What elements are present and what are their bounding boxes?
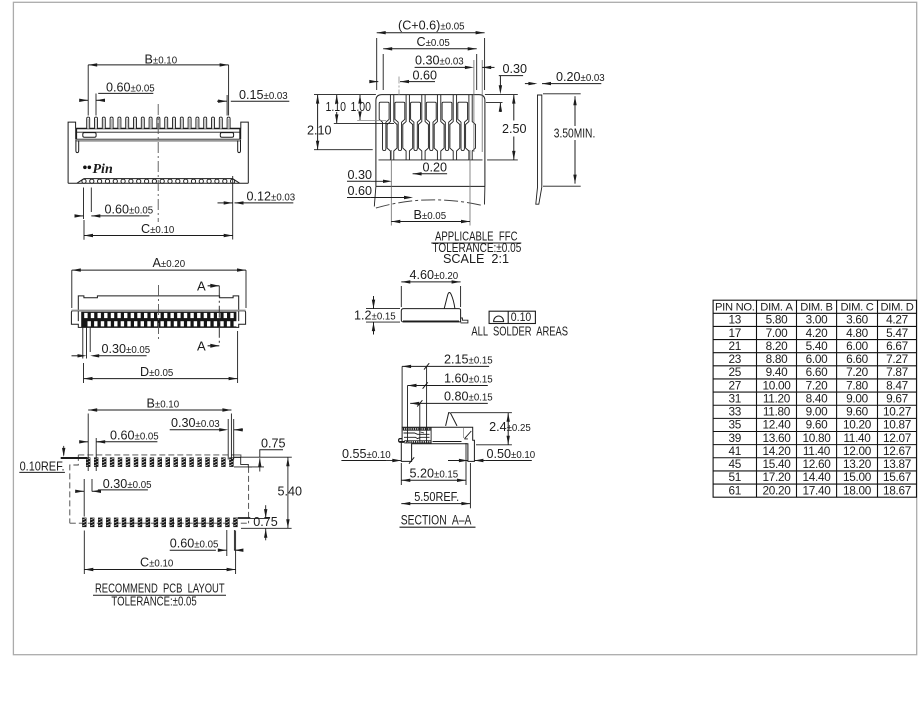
section A-A contact area hatch [403,428,431,431]
front view left latch window [83,133,96,138]
pcb layout dashed outline [78,454,237,456]
dimension C±0.05 (FFC) [382,54,384,90]
pcb top pad row x19 [86,457,90,467]
svg-text:2.15±0.15: 2.15±0.15 [444,353,493,367]
svg-text:3.60: 3.60 [846,313,868,327]
dimension 0.60±0.05 top (front view) [95,94,97,116]
bottom view flange outline [71,311,245,328]
dimension 5.40 (pcb) [241,527,292,529]
dimension 0.50±0.10 (section) [448,460,468,462]
dimension 0.75 bottom right (pcb) [265,505,267,518]
pcb bottom pad row x20 [82,518,86,528]
svg-text:7.87: 7.87 [886,365,908,379]
svg-text:33: 33 [729,405,742,419]
dimension 1.10 (FFC) [335,95,338,104]
svg-text:0.30±0.05: 0.30±0.05 [103,477,152,491]
svg-text:0.30±0.03: 0.30±0.03 [171,416,220,430]
section arrow A bottom [208,345,220,347]
svg-text:17.20: 17.20 [762,470,791,484]
svg-text:5.47: 5.47 [886,326,908,340]
svg-text:10.87: 10.87 [883,418,911,432]
dimension 0.60±0.05 bottom (front view) [83,188,85,220]
svg-text:0.30±0.05: 0.30±0.05 [102,342,151,356]
svg-text:18.00: 18.00 [843,483,872,497]
svg-text:0.60±0.05: 0.60±0.05 [106,81,155,95]
bottom view contact band (dark) [81,312,236,327]
section A-A body outline [401,427,474,461]
dimension 4.60±0.20 (side view) [400,286,402,307]
svg-text:A: A [197,339,206,354]
FFC body outline [376,95,485,187]
svg-text:2.50: 2.50 [502,122,527,136]
svg-text:12.00: 12.00 [843,444,872,458]
svg-text:B±0.05: B±0.05 [414,208,447,222]
dimension 0.60 left (FFC) [347,197,371,199]
svg-text:12.40: 12.40 [762,418,791,432]
svg-text:27: 27 [729,378,742,392]
dimension 0.12±0.03 (front view) [232,176,234,240]
dimension 2.15±0.15 (section) [401,366,403,427]
section line A-A [218,286,220,346]
dimension B±0.10 (front view) [87,65,89,116]
svg-text:C±0.10: C±0.10 [141,222,175,236]
dimension B±0.05 (FFC) [391,221,470,223]
side view latch tab [444,292,455,308]
FFC conductor window bottom line [379,159,483,161]
section A-A bottom left lip [399,439,404,443]
section A-A contact spring [404,429,430,431]
svg-text:45: 45 [729,457,742,471]
svg-text:0.80±0.15: 0.80±0.15 [444,390,493,404]
strip extension lines [543,93,581,95]
svg-text:14.40: 14.40 [802,470,831,484]
dimension B±0.10 (pcb) [87,414,89,472]
svg-text:A±0.20: A±0.20 [153,256,186,270]
bottom view centerline [158,285,160,342]
dimension (C+0.6)±0.05 (FFC) [376,38,378,90]
dimension 0.55±0.10 (section) [341,460,386,462]
svg-text:17: 17 [729,326,742,340]
svg-text:0.75: 0.75 [261,437,286,451]
pcb 0.10REF leader [61,457,87,459]
svg-text:9.60: 9.60 [846,405,868,419]
svg-text:41: 41 [729,444,742,458]
svg-text:10.27: 10.27 [883,405,911,419]
svg-text:10.20: 10.20 [843,418,872,432]
svg-text:Pin: Pin [93,162,113,177]
svg-text:12.67: 12.67 [883,444,911,458]
svg-text:0.60: 0.60 [413,68,438,82]
svg-text:7.27: 7.27 [886,352,908,366]
dimension 0.20 (FFC finger neck) [413,172,422,175]
front view body outline [68,122,248,183]
dimension 0.15±0.03 (front view) [226,95,228,116]
svg-text:7.20: 7.20 [806,378,828,392]
svg-text:5.80: 5.80 [766,313,788,327]
svg-text:4.80: 4.80 [846,326,868,340]
section arrow A top [208,285,220,287]
svg-text:4.60±0.20: 4.60±0.20 [410,268,459,282]
svg-text:9.00: 9.00 [806,405,828,419]
dimension 1.00 (FFC) [358,95,361,104]
dimension 0.20±0.03 (strip) [525,83,535,85]
section A-A rear latch notch [465,431,472,439]
svg-text:20.20: 20.20 [762,483,791,497]
svg-text:6.60: 6.60 [806,365,828,379]
front view left foot [76,140,79,153]
dimension 5.50REF (section) [469,463,471,508]
section A-A latch lever [446,413,457,426]
pin 1 marker dots [83,166,87,170]
section A-A gray cut line [463,428,465,439]
dimension 0.30±0.03 (pcb) [227,419,229,460]
svg-text:0.10REF.: 0.10REF. [20,459,65,473]
svg-text:0.60±0.05: 0.60±0.05 [105,203,154,217]
svg-text:15.40: 15.40 [762,457,791,471]
svg-text:0.50±0.10: 0.50±0.10 [487,447,536,461]
svg-text:0.20: 0.20 [423,160,448,174]
dimension 1.2±0.15 (side view) [366,308,400,310]
FFC conductor fingers [379,102,389,150]
svg-text:5.20±0.15: 5.20±0.15 [410,467,459,481]
svg-text:11.80: 11.80 [763,405,791,419]
bottom view contact band white slots [84,313,87,318]
dimension C±0.10 (pcb) [83,531,85,575]
svg-text:0.12±0.03: 0.12±0.03 [247,190,296,204]
svg-text:6.00: 6.00 [806,352,828,366]
svg-text:9.67: 9.67 [886,391,908,405]
dimension D±0.05 (bottom view) [83,363,85,383]
svg-text:13.60: 13.60 [762,431,791,445]
svg-text:B±0.10: B±0.10 [147,397,180,411]
svg-text:SECTION A–A: SECTION A–A [401,512,472,527]
svg-text:0.30±0.03: 0.30±0.03 [415,54,464,68]
dimension C±0.10 (front view) [83,220,85,240]
dimension 0.30 left (FFC) [347,180,371,182]
svg-text:8.40: 8.40 [806,391,828,405]
front view right latch window [220,133,233,138]
side view body [401,309,460,322]
svg-text:C±0.10: C±0.10 [140,556,174,570]
dimension 0.30±0.05 (bottom view) [82,327,84,358]
svg-text:SCALE 2:1: SCALE 2:1 [443,251,509,266]
svg-text:23: 23 [729,352,742,366]
svg-text:2.10: 2.10 [307,124,332,138]
svg-text:12.07: 12.07 [883,431,911,445]
svg-text:51: 51 [729,470,742,484]
svg-text:21: 21 [729,339,742,353]
svg-text:13.20: 13.20 [843,457,872,471]
FFC gray extension lines through fingers [398,77,400,96]
svg-text:18.67: 18.67 [883,483,911,497]
front view centerline [157,104,159,222]
svg-text:3.00: 3.00 [806,313,828,327]
svg-text:6.60: 6.60 [846,352,868,366]
svg-text:5.40: 5.40 [278,485,303,499]
dimension 0.80±0.15 (section) [419,403,421,442]
dimension 0.30 right (FFC edge margin) [499,75,523,77]
svg-text:C±0.05: C±0.05 [417,35,450,49]
front view inner horizontal lines [76,131,241,133]
svg-text:0.20±0.03: 0.20±0.03 [556,70,605,84]
svg-text:D±0.05: D±0.05 [140,365,173,379]
pcb pad hatch texture [83,458,238,526]
dimension 0.30±0.03 (FFC fingers) [473,60,475,152]
svg-text:8.80: 8.80 [766,352,788,366]
svg-text:ALL SOLDER AREAS: ALL SOLDER AREAS [471,323,568,338]
dimension 1.60±0.15 (section) [407,386,409,443]
front view bottom contact bumps x20 [82,179,86,183]
svg-text:9.40: 9.40 [766,365,788,379]
svg-text:13: 13 [729,313,742,327]
svg-text:6.00: 6.00 [846,339,868,353]
svg-text:9.00: 9.00 [846,391,868,405]
svg-text:1.2±0.15: 1.2±0.15 [354,309,396,323]
FFC break line curve at bottom [376,200,483,208]
section A-A body bottom line [399,441,461,443]
svg-text:A: A [197,279,206,294]
svg-text:1.60±0.15: 1.60±0.15 [444,372,493,386]
svg-text:15.00: 15.00 [843,470,872,484]
svg-text:25: 25 [729,365,742,379]
front view right foot [238,140,241,153]
dimension 0.30±0.05 mid (pcb) [83,479,85,517]
svg-text:11.40: 11.40 [843,431,871,445]
svg-text:4.27: 4.27 [886,313,908,327]
svg-text:10.80: 10.80 [802,431,831,445]
svg-text:TOLERANCE:±0.05: TOLERANCE:±0.05 [111,593,196,608]
svg-text:3.50MIN.: 3.50MIN. [554,126,596,140]
svg-text:12.60: 12.60 [802,457,831,471]
pcb right step top (pad extension) [234,457,252,467]
svg-text:4.20: 4.20 [806,326,828,340]
svg-text:11.20: 11.20 [763,391,791,405]
svg-text:9.60: 9.60 [806,418,828,432]
svg-text:0.30: 0.30 [348,168,373,182]
svg-text:5.40: 5.40 [806,339,828,353]
dimension table [713,300,916,497]
FFC side strip profile [536,95,542,204]
svg-text:13.87: 13.87 [883,457,911,471]
side view right foot [461,318,468,323]
svg-text:61: 61 [729,483,742,497]
svg-text:2.4±0.25: 2.4±0.25 [489,420,531,434]
front view top contact teeth x19 [87,117,90,128]
dimension A±0.20 (bottom view) [71,270,73,308]
svg-text:B±0.10: B±0.10 [145,53,178,67]
svg-text:10.00: 10.00 [762,378,791,392]
solder area symbol box [489,311,535,323]
svg-text:8.20: 8.20 [766,339,788,353]
svg-text:17.40: 17.40 [802,483,831,497]
dimension 0.60±0.05 top (pcb) [95,438,97,471]
svg-text:1.00: 1.00 [351,100,372,114]
dimension 2.4±0.25 (section) [451,412,512,414]
dimension 2.10 (FFC) [317,95,319,150]
svg-text:0.60±0.05: 0.60±0.05 [170,537,219,551]
svg-text:14.20: 14.20 [762,444,791,458]
svg-text:0.60: 0.60 [348,184,373,198]
svg-text:31: 31 [729,391,742,405]
dimension 0.60 (FFC pitch) [371,81,379,83]
svg-text:0.30: 0.30 [503,62,528,76]
dimension 2.50 (FFC) [487,159,518,161]
svg-text:0.75: 0.75 [253,515,278,529]
dimension 5.20±0.15 (section) [400,463,402,485]
svg-text:1.10: 1.10 [326,100,347,114]
front view right end wall [239,129,241,140]
dimension 3.50MIN (strip) [574,96,576,126]
svg-text:8.47: 8.47 [886,378,908,392]
pcb bottom right step [238,517,251,519]
front view bottom chamfer band [77,179,240,184]
svg-text:0.15±0.03: 0.15±0.03 [239,88,288,102]
svg-text:0.55±0.10: 0.55±0.10 [342,447,391,461]
svg-text:15.67: 15.67 [883,470,911,484]
dimension 0.60±0.05 bottom (pcb) [226,530,228,556]
svg-text:0.10: 0.10 [511,310,532,324]
svg-text:39: 39 [729,431,742,445]
svg-text:11.40: 11.40 [803,444,831,458]
svg-text:0.60±0.05: 0.60±0.05 [110,428,159,442]
svg-text:6.67: 6.67 [886,339,908,353]
svg-text:35: 35 [729,418,742,432]
svg-text:7.80: 7.80 [846,378,868,392]
svg-text:(C+0.6)±0.05: (C+0.6)±0.05 [398,19,465,33]
svg-text:7.00: 7.00 [766,326,788,340]
bottom view body outline [78,296,238,321]
svg-text:5.50REF.: 5.50REF. [414,490,459,504]
front view left end wall [75,129,77,140]
svg-text:7.20: 7.20 [846,365,868,379]
dimension 0.75 top right (pcb) [259,449,283,451]
